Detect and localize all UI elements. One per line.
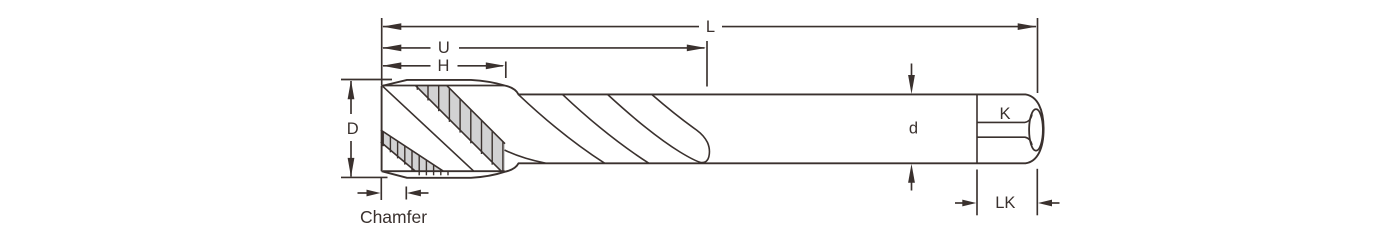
svg-text:d: d: [909, 119, 918, 137]
svg-text:D: D: [347, 120, 359, 138]
svg-text:L: L: [706, 18, 715, 36]
svg-text:Chamfer: Chamfer: [360, 207, 427, 227]
svg-text:U: U: [438, 39, 450, 57]
svg-text:H: H: [438, 57, 450, 75]
svg-text:LK: LK: [995, 194, 1015, 212]
svg-text:K: K: [999, 105, 1010, 123]
